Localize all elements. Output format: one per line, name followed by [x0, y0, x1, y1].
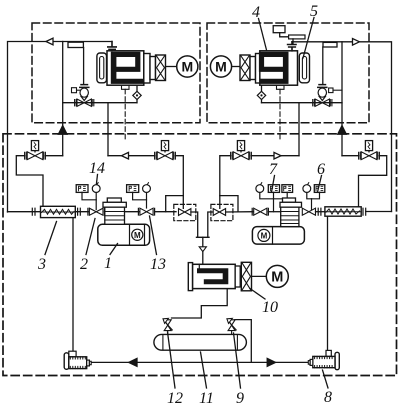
wire: valve C right to riser with arrow [251, 155, 299, 157]
relief valve 12 on tank [163, 318, 172, 334]
pressure switch boxes cluster 3 [268, 185, 292, 193]
wire: motor to coupling right [232, 66, 240, 68]
svg-text:1: 1 [104, 255, 112, 272]
instrument box 2 above right compressor [289, 35, 305, 39]
wire: cluster 1 to valve 2 [82, 192, 96, 199]
coupling right unit [240, 55, 250, 81]
svg-text:10: 10 [262, 299, 278, 316]
fan unit left [64, 351, 91, 369]
wire: main line left segment [8, 211, 90, 213]
svg-text:8: 8 [324, 389, 332, 406]
wire: riser valve line to valve C [298, 103, 300, 156]
wire: HX3 bottom to left fan [72, 218, 74, 352]
heat exchanger 3 [41, 206, 76, 217]
svg-text:9: 9 [236, 390, 244, 407]
arrow (hollow, left) before valve B [122, 152, 129, 159]
top-left dashed unit box [32, 23, 200, 123]
wire: bypass R to drain funnel [208, 212, 213, 237]
wire: box2 down to fitting [292, 39, 294, 45]
label 9 with leader [234, 333, 245, 407]
arrow (filled, right) on bottom line [267, 358, 275, 366]
separator left inner slot [100, 57, 104, 80]
svg-text:5: 5 [310, 3, 318, 20]
compressor right: main body [260, 51, 298, 85]
oil tank 11 [154, 334, 247, 350]
svg-text:M: M [215, 59, 227, 75]
control valve B [155, 141, 176, 160]
bypass valve L [179, 209, 191, 216]
check filter diamond right [257, 85, 265, 103]
wire: box1 to box2 [280, 33, 289, 37]
label 11 with leader [199, 352, 214, 407]
gauge 2 [143, 183, 151, 193]
wire: valve 13 to bypass manifold L [155, 211, 176, 213]
pressure switch box cluster 4 [314, 185, 325, 193]
fan unit 8 right [308, 350, 339, 369]
filter box on left header [68, 42, 83, 47]
wire: valve 9 outlet to bottom line [235, 320, 251, 363]
wire: left compressor valve line [63, 102, 137, 104]
bypass dashed box L [174, 204, 196, 220]
motor M unit 10 [266, 265, 288, 287]
svg-text:7: 7 [269, 161, 278, 178]
valve R2 [302, 208, 315, 215]
svg-text:12: 12 [167, 390, 183, 407]
wire: HX6 bottom to fan 8 [327, 216, 329, 350]
heat exchanger 6 [325, 207, 361, 216]
wire: riser from valve line to valve B line [107, 103, 109, 156]
filter box on right header [323, 42, 337, 47]
top fitting on right compressor [288, 42, 296, 51]
flange pair left of HX6 [318, 208, 321, 215]
motor M right unit [210, 56, 231, 77]
label 10 with leader [250, 289, 278, 317]
wire: bypass L to drain funnel [191, 212, 198, 237]
label 5 with leader [303, 3, 318, 58]
valve under right funnel [313, 99, 332, 106]
separator right inner slot [302, 57, 306, 80]
top-right dashed unit box [207, 23, 369, 123]
wire: coupling to motor left [166, 66, 177, 68]
wire: left main riser (header to valve line) [62, 42, 64, 156]
gauge 1 [92, 183, 100, 193]
wire: drop from filter box to right float funnel [322, 47, 324, 84]
wire: valve B right, down to bypass L [175, 156, 183, 209]
label 14 with leader [89, 160, 105, 184]
wire: cluster 4 to pipe [307, 193, 312, 199]
top fitting on left compressor [108, 42, 116, 51]
oil pump unit 10 [188, 262, 251, 291]
drain funnel bar and vent [197, 237, 210, 263]
arrow (hollow, right) on top-right header [353, 39, 360, 46]
pressure switch box cluster 2 [127, 185, 139, 193]
dashed drain wire left [124, 89, 126, 141]
dashed drain wire right [279, 89, 281, 141]
wire: valve A right to riser [45, 155, 62, 157]
wire: bracket over valve 13 [166, 196, 184, 212]
compressor left: step blocks [144, 54, 150, 84]
arrow (filled, up) on right riser [338, 126, 347, 135]
arrow (filled, up) on left riser [58, 126, 67, 135]
label 7 with leader [269, 161, 278, 192]
control valve C [231, 141, 252, 160]
funnel side outlet left [72, 88, 81, 93]
svg-text:13: 13 [150, 256, 166, 273]
pressure switch box cluster 1 [76, 185, 88, 193]
svg-text:4: 4 [252, 4, 260, 21]
wire: right compressor valve line [262, 102, 343, 104]
wire: valve B left line with arrow [108, 155, 155, 157]
compressor left: main body [107, 51, 144, 85]
label 4 with leader [252, 4, 267, 50]
label 8 with leader [323, 370, 333, 406]
label 2 with leader [80, 219, 95, 274]
compressor left: screw symbol [111, 52, 144, 84]
wire: top-right discharge header [292, 42, 392, 212]
gauge 4 [303, 183, 311, 193]
bottom drain fitting right compressor [277, 85, 285, 89]
control valve D [359, 141, 380, 160]
instrument box 1 above right compressor [273, 26, 285, 33]
arrow (filled, left) on bottom line [129, 358, 137, 366]
label 13 with leader [150, 216, 167, 273]
control valve A [25, 141, 46, 160]
wire: bypass R to main line R, bracket [226, 211, 254, 213]
valve 13 [138, 208, 154, 215]
valve 2 [88, 208, 105, 215]
bottom drain fitting left compressor [122, 85, 130, 89]
compressor right: screw symbol (mirrored) [259, 52, 289, 84]
wire: right main riser [341, 42, 343, 156]
svg-text:14: 14 [89, 160, 105, 177]
wire: drop from filter box to left float funnel [83, 48, 85, 85]
svg-text:M: M [271, 270, 283, 286]
svg-text:M: M [134, 231, 141, 240]
svg-text:11: 11 [199, 390, 214, 407]
compressor left: oil separator vessel [97, 53, 107, 83]
arrow (hollow, right) after valve C [274, 152, 281, 159]
bypass valve R [213, 209, 225, 216]
svg-text:6: 6 [317, 161, 325, 178]
wire: valve D left to riser [342, 155, 359, 157]
pump 1 with motor [98, 198, 150, 245]
valve R1 [252, 208, 268, 215]
label 6 with leader [317, 161, 325, 192]
pump 2 with motor [252, 198, 304, 244]
arrow (hollow, left) on top-left header [46, 38, 53, 45]
label 1 with leader [104, 244, 118, 273]
wire: unit 10 coupling to motor [252, 275, 267, 277]
flange pair right of HX6 [363, 208, 366, 215]
wire: valve A left to HX3 top [16, 156, 43, 207]
label 3 with leader [37, 222, 57, 274]
flange pair left of HX3 [32, 208, 35, 215]
coupling left unit [156, 55, 166, 81]
wire: valve D right Z-path to HX6 top [359, 156, 387, 207]
wire: cluster 2 to valve 13 [133, 192, 147, 199]
wire: valve C left down to bypass R [220, 156, 231, 209]
compressor right: step blocks [250, 57, 256, 80]
motor M left unit [177, 56, 198, 77]
label 12 with leader [167, 332, 183, 407]
wire: valve R1 to pump 2 [268, 211, 280, 213]
wire: bottom main line [91, 361, 308, 363]
wire: HX6 to right header riser [366, 211, 392, 213]
outer dashed enclosure box [3, 134, 397, 376]
float trap funnel left [80, 85, 89, 101]
wire: top-left suction header [8, 42, 113, 213]
check filter diamond left [133, 85, 141, 103]
wire: short link to HX6 [316, 211, 325, 213]
svg-text:2: 2 [80, 256, 88, 273]
svg-text:M: M [261, 231, 268, 240]
flange pair right of HX3 [78, 208, 81, 215]
svg-text:3: 3 [37, 256, 46, 273]
wire: cluster 3 to pump suction [260, 193, 274, 199]
float trap funnel right [318, 85, 327, 101]
svg-text:M: M [181, 59, 193, 75]
wire: unit 10 drain staircase to valve 12 [172, 289, 228, 318]
valve under left funnel [75, 99, 94, 106]
funnel side outlet right [329, 88, 342, 93]
bypass dashed box R [211, 204, 233, 220]
gauge 3 [256, 183, 264, 193]
relief valve 9 on tank [227, 318, 236, 334]
compressor right: oil separator vessel [299, 53, 309, 83]
wire: main line to pump 1 [105, 211, 141, 213]
